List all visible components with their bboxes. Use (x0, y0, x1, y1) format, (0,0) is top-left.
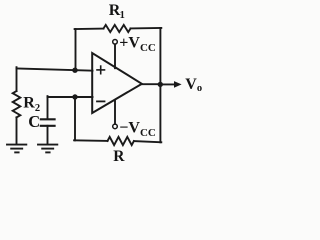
junction dot noninverting node (72, 68, 77, 73)
wire +Vcc stub (114, 44, 116, 68)
op-amp plus input sign (97, 66, 105, 74)
ground symbol under C (38, 145, 57, 153)
svg-text:C: C (28, 112, 40, 131)
svg-text:R1: R1 (109, 2, 125, 21)
wire noninverting input (17, 68, 93, 70)
capacitor C plates (41, 119, 55, 126)
wire bottom left segment (74, 139, 107, 142)
ground symbol under R2 (7, 145, 26, 153)
wire right rail (159, 28, 161, 142)
terminal circle +Vcc (113, 40, 118, 45)
wire R2 bottom vertical (16, 117, 18, 144)
resistor R1 zigzag (104, 25, 131, 32)
wire inverting input (48, 96, 93, 98)
wire inverting node vertical (74, 97, 76, 140)
wire -Vcc stub (114, 100, 116, 124)
terminal circle -Vcc (113, 124, 118, 129)
wire feedback top right segment (131, 27, 162, 30)
svg-text:R: R (113, 148, 125, 165)
wire output (141, 83, 160, 85)
op-amp minus input sign (97, 100, 105, 102)
wire feedback left vertical (75, 29, 77, 70)
resistor R2 zigzag (13, 91, 21, 117)
resistor R zigzag (108, 137, 134, 145)
svg-text:+VCC: +VCC (119, 35, 156, 54)
op-amp U1 triangle (92, 53, 142, 113)
junction dot inverting node (72, 94, 77, 99)
wire bottom right segment (134, 141, 161, 142)
junction dot output node (158, 82, 163, 87)
svg-text:−VCC: −VCC (119, 120, 156, 139)
wire capacitor top vertical (47, 96, 49, 118)
wire R2 top vertical (16, 67, 18, 91)
svg-text:Vo: Vo (185, 76, 202, 94)
output arrow to Vo (160, 81, 181, 88)
wire feedback top left segment (75, 28, 104, 30)
wire capacitor bottom vertical (47, 126, 49, 144)
